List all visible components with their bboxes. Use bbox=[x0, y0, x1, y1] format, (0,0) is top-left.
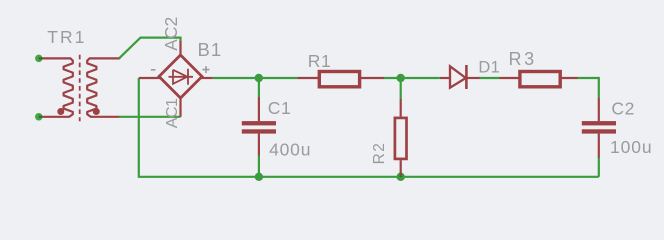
svg-text:B1: B1 bbox=[198, 39, 223, 60]
svg-text:AC1: AC1 bbox=[164, 98, 181, 128]
junction dot bottom C1 bbox=[255, 173, 263, 181]
svg-text:TR1: TR1 bbox=[47, 27, 86, 47]
top plate bbox=[582, 121, 616, 125]
wire R2 top branch bbox=[400, 78, 402, 99]
right lead bbox=[561, 77, 578, 79]
right lead bbox=[466, 77, 479, 79]
primary winding bbox=[39, 58, 73, 116]
core bbox=[79, 55, 81, 122]
bridge rectifier B1 bbox=[139, 16, 222, 128]
body bbox=[319, 72, 359, 87]
pin P1 bbox=[35, 55, 43, 63]
capacitor C1 bbox=[242, 97, 311, 159]
wire C1 bottom branch bbox=[258, 156, 260, 177]
svg-text:C2: C2 bbox=[611, 98, 635, 118]
left lead bbox=[440, 77, 450, 79]
svg-text:100u: 100u bbox=[610, 137, 653, 157]
wire TR1 secondary top to B1 AC2 bbox=[119, 38, 181, 59]
wire B1 plus to R1 bbox=[213, 77, 298, 79]
inner diode bbox=[169, 69, 194, 85]
svg-text:D1: D1 bbox=[478, 59, 500, 77]
wire C1 top branch bbox=[258, 78, 260, 97]
svg-text:R1: R1 bbox=[308, 51, 332, 71]
top lead bbox=[258, 97, 260, 121]
bottom lead bbox=[400, 160, 402, 175]
bottom lead bbox=[258, 134, 260, 156]
pin AC1 stub bbox=[179, 97, 181, 117]
bottom plate bbox=[582, 129, 616, 133]
svg-text:AC2: AC2 bbox=[161, 16, 181, 50]
primary polarity dot bbox=[57, 108, 64, 115]
overlap blend on R2 junction bbox=[400, 173, 402, 177]
pin plus stub bbox=[201, 77, 213, 79]
anode triangle bbox=[450, 66, 466, 87]
pin mark minus bbox=[151, 69, 156, 71]
wire B1 minus to bottom rail bbox=[139, 78, 599, 177]
secondary winding bbox=[87, 58, 119, 116]
secondary polarity dot bbox=[93, 108, 100, 115]
left lead bbox=[297, 77, 318, 79]
pin mark plus bbox=[203, 66, 210, 73]
junction dot top R2 bbox=[397, 74, 405, 82]
wire TR1 secondary bottom to B1 AC1 bbox=[119, 116, 181, 118]
top lead bbox=[598, 98, 600, 121]
bottom lead bbox=[598, 134, 600, 158]
cathode bar bbox=[465, 65, 468, 89]
svg-text:R2: R2 bbox=[371, 142, 388, 165]
svg-text:C1: C1 bbox=[268, 98, 292, 118]
capacitor C2 bbox=[582, 98, 653, 158]
wire D1 to R3 bbox=[479, 77, 500, 79]
resistor R1 bbox=[297, 51, 384, 87]
diamond body bbox=[159, 55, 202, 98]
bottom plate bbox=[242, 129, 276, 133]
svg-text:R3: R3 bbox=[509, 49, 537, 69]
resistor R3 bbox=[500, 49, 578, 87]
wire R3 to C2 bbox=[578, 78, 599, 98]
right lead bbox=[361, 77, 384, 79]
wire R1 to D1 bbox=[384, 77, 440, 79]
left lead bbox=[500, 77, 519, 79]
junction dot top C1 bbox=[255, 74, 263, 82]
pin P2 bbox=[35, 113, 43, 121]
diode D1 bbox=[440, 59, 500, 90]
wire C2 bottom branch bbox=[598, 157, 600, 177]
transformer TR1 bbox=[35, 27, 119, 121]
body bbox=[395, 118, 407, 159]
junction dot bottom R2 bbox=[397, 173, 405, 181]
pin AC2 stub bbox=[179, 41, 181, 57]
svg-text:400u: 400u bbox=[269, 139, 311, 159]
top lead bbox=[400, 99, 402, 117]
body bbox=[520, 72, 560, 87]
resistor R2 bbox=[371, 99, 406, 176]
pin minus stub bbox=[139, 77, 160, 79]
top plate bbox=[242, 121, 276, 125]
